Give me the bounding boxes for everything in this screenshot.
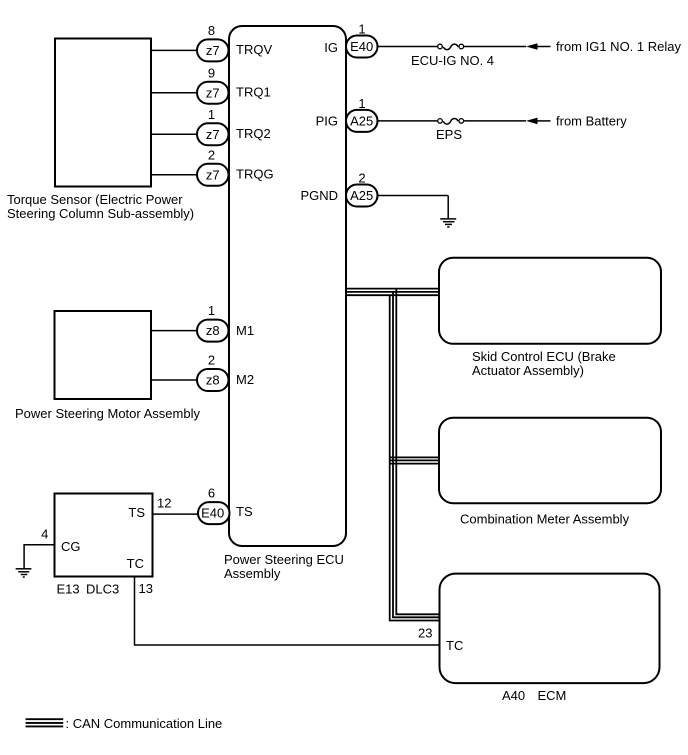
svg-text:1: 1 [208, 303, 215, 318]
svg-text:Actuator Assembly): Actuator Assembly) [472, 363, 584, 378]
svg-text:z8: z8 [206, 323, 220, 338]
svg-text:Torque Sensor (Electric Power: Torque Sensor (Electric Power [7, 192, 183, 207]
svg-text:z7: z7 [206, 127, 220, 142]
svg-text:TC: TC [446, 638, 463, 653]
svg-text:12: 12 [157, 496, 171, 511]
svg-text:A25: A25 [350, 114, 373, 129]
svg-text:z8: z8 [206, 373, 220, 388]
svg-text:9: 9 [208, 65, 215, 80]
svg-text:TRQG: TRQG [236, 166, 274, 181]
svg-text:8: 8 [208, 23, 215, 38]
svg-text:Power Steering ECU: Power Steering ECU [224, 552, 344, 567]
svg-text:M1: M1 [236, 323, 254, 338]
svg-text:EPS: EPS [436, 127, 462, 142]
svg-text:Power Steering Motor Assembly: Power Steering Motor Assembly [15, 406, 200, 421]
svg-text:2: 2 [358, 171, 365, 186]
svg-text:2: 2 [208, 353, 215, 368]
svg-text:M2: M2 [236, 372, 254, 387]
svg-text:z7: z7 [206, 85, 220, 100]
svg-text:1: 1 [358, 22, 365, 37]
svg-text:from IG1 NO. 1 Relay: from IG1 NO. 1 Relay [556, 39, 681, 54]
svg-text:E40: E40 [350, 39, 373, 54]
svg-text:E13: E13 [57, 582, 80, 597]
svg-text:CG: CG [61, 539, 81, 554]
svg-text:A40: A40 [502, 688, 525, 703]
svg-text:: CAN Communication Line: : CAN Communication Line [66, 716, 223, 731]
svg-text:4: 4 [41, 527, 48, 542]
svg-text:E40: E40 [201, 506, 224, 521]
svg-text:TRQ2: TRQ2 [236, 126, 271, 141]
svg-text:Combination Meter Assembly: Combination Meter Assembly [460, 512, 630, 527]
svg-text:1: 1 [358, 96, 365, 111]
svg-text:PIG: PIG [316, 113, 338, 128]
svg-text:IG: IG [324, 40, 338, 55]
svg-text:ECU-IG NO. 4: ECU-IG NO. 4 [411, 53, 494, 68]
svg-text:z7: z7 [206, 167, 220, 182]
svg-text:PGND: PGND [300, 188, 338, 203]
svg-text:Steering Column Sub-assembly): Steering Column Sub-assembly) [7, 206, 194, 221]
svg-text:z7: z7 [206, 43, 220, 58]
svg-text:2: 2 [208, 147, 215, 162]
svg-text:1: 1 [208, 107, 215, 122]
svg-text:TRQ1: TRQ1 [236, 84, 271, 99]
svg-text:DLC3: DLC3 [86, 582, 119, 597]
svg-text:23: 23 [418, 626, 432, 641]
svg-text:A25: A25 [350, 188, 373, 203]
svg-text:TC: TC [127, 556, 144, 571]
svg-text:Assembly: Assembly [224, 566, 281, 581]
svg-text:TRQV: TRQV [236, 42, 272, 57]
svg-text:6: 6 [208, 486, 215, 501]
svg-text:from Battery: from Battery [556, 113, 627, 128]
svg-text:TS: TS [236, 504, 253, 519]
svg-text:Skid Control ECU (Brake: Skid Control ECU (Brake [472, 349, 616, 364]
svg-text:ECM: ECM [538, 688, 567, 703]
svg-text:13: 13 [139, 581, 153, 596]
svg-text:TS: TS [128, 505, 145, 520]
